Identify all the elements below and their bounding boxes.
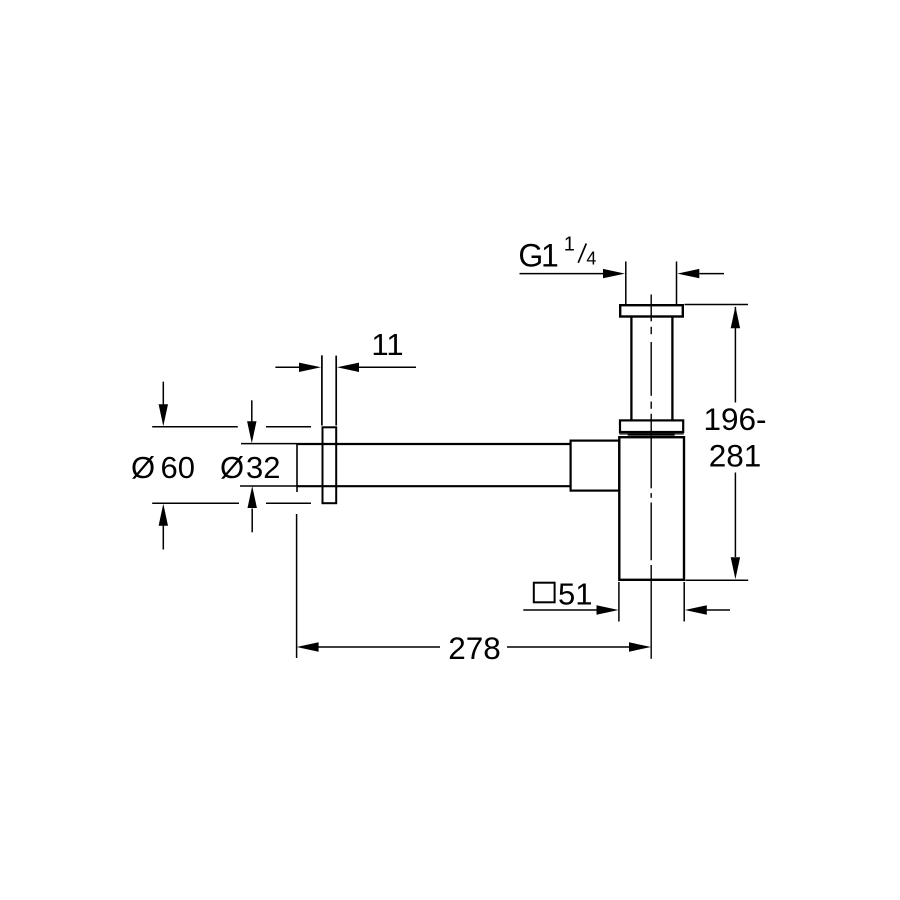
svg-text:196-: 196- <box>703 401 766 437</box>
svg-text:32: 32 <box>246 450 280 485</box>
svg-text:4: 4 <box>586 249 596 269</box>
svg-text:Ø: Ø <box>220 450 244 485</box>
svg-text:51: 51 <box>558 577 592 612</box>
svg-text:Ø: Ø <box>131 450 155 485</box>
svg-text:281: 281 <box>709 438 762 474</box>
svg-text:60: 60 <box>161 450 195 485</box>
svg-text:11: 11 <box>371 327 403 362</box>
svg-text:278: 278 <box>448 630 501 666</box>
svg-text:G: G <box>518 238 543 274</box>
svg-text:1: 1 <box>564 234 575 256</box>
svg-text:1: 1 <box>541 238 559 274</box>
